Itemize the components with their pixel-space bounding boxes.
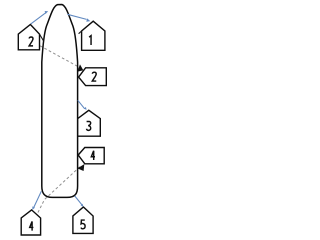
body outline (ogive nose, straight sides, round bottom) xyxy=(42,5,78,198)
blue arrowhead at balloon 5 peak xyxy=(81,204,84,207)
balloon 3 pentagon xyxy=(78,110,101,136)
blue leader from nose right to balloon 1 xyxy=(67,14,86,19)
right balloon 4 (left-pointing pentagon) xyxy=(78,148,104,164)
blue leader from body bottom-right to balloon 5 xyxy=(75,196,82,205)
balloon 5 digit xyxy=(81,220,85,229)
bottom-left balloon 4 pentagon xyxy=(21,210,40,235)
dashed connector D2 from right balloon 4 to bottom-left balloon 4 xyxy=(38,167,80,213)
balloon 2 top-left corner extension segment xyxy=(40,34,44,41)
blue arrowhead at balloon 3 peak xyxy=(84,107,87,110)
balloon 5 pentagon xyxy=(73,207,93,233)
blue arrowhead near balloon 1 xyxy=(86,18,90,21)
black arrowhead at body edge for right balloon 4 xyxy=(77,164,84,171)
balloon 2 top-left digit xyxy=(29,37,33,46)
blue leader from body bottom-left to balloon 4 xyxy=(34,191,41,207)
dashed connector D1 from balloon 2 (top-left) to right balloon 2 xyxy=(40,46,79,67)
balloon 1 roof extension segment xyxy=(79,31,82,34)
right balloon 4 digit xyxy=(91,151,95,160)
black arrowhead at body edge for right balloon 2 xyxy=(77,64,83,71)
blue arrowhead at nose left xyxy=(45,11,49,14)
balloon 3 digit xyxy=(87,121,91,130)
bottom-left balloon 4 digit xyxy=(30,221,34,230)
balloon 1 top-right pentagon xyxy=(82,21,105,50)
balloon 2 top-left pentagon xyxy=(18,25,39,50)
blue leader from body edge to balloon 3 xyxy=(78,100,85,108)
balloon 1 digit xyxy=(89,36,91,45)
blue arrowhead at balloon 4 peak xyxy=(32,206,35,210)
right balloon 2 digit xyxy=(92,72,96,81)
right balloon 2 (left-pointing pentagon) xyxy=(79,68,107,86)
blue leader from balloon 2 to nose left xyxy=(31,13,46,24)
